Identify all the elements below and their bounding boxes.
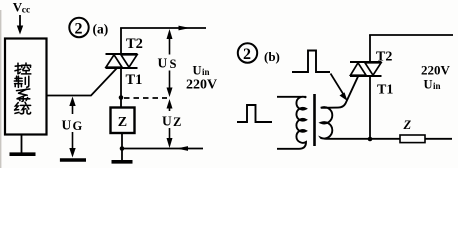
svg-text:in: in (202, 67, 210, 77)
svg-text:U: U (158, 56, 168, 71)
svg-text:U: U (162, 114, 172, 129)
svg-text:(a): (a) (93, 22, 109, 37)
svg-text:220V: 220V (421, 63, 451, 78)
svg-text:220V: 220V (186, 78, 217, 93)
svg-text:2: 2 (243, 46, 251, 63)
svg-text:G: G (73, 119, 83, 133)
svg-text:T1: T1 (126, 72, 143, 88)
svg-text:Z: Z (118, 115, 127, 130)
svg-text:cc: cc (22, 6, 30, 16)
svg-text:2: 2 (75, 21, 83, 38)
svg-text:U: U (62, 118, 72, 133)
svg-text:T2: T2 (376, 50, 392, 65)
svg-text:T2: T2 (126, 36, 143, 52)
svg-text:Z: Z (403, 118, 412, 132)
svg-text:T1: T1 (377, 83, 393, 98)
svg-text:U: U (424, 78, 433, 92)
svg-text:Z: Z (173, 115, 181, 129)
svg-text:S: S (170, 57, 177, 71)
svg-text:in: in (433, 81, 441, 91)
svg-text:(b): (b) (264, 49, 280, 64)
svg-text:U: U (193, 64, 202, 78)
